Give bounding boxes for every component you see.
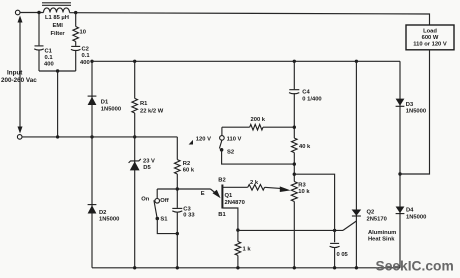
node: left end of mid rail [90,60,93,63]
node: R3 at bottom rail [293,266,296,269]
svg-text:2N5170: 2N5170 [367,216,387,222]
wire: filter center drop [57,71,59,137]
potentiometer R3 [291,182,297,202]
node: filter bottom junction [56,69,59,72]
svg-text:23 V: 23 V [143,159,155,165]
wire: Q2 branch [355,61,357,267]
diode D4 [396,207,405,214]
node B1 junction [236,228,239,231]
resistor 2k [248,185,265,191]
node E junction [176,187,179,190]
wire: filter bottom [39,70,76,72]
input terminal bottom [17,135,22,140]
wire: R2 branch corner [176,137,178,160]
svg-text:0 1/400: 0 1/400 [302,97,321,103]
wire: B2 lead to 2k [222,186,247,188]
svg-text:110 V: 110 V [227,137,242,143]
thyristor Q2 2N5170 [352,210,362,217]
svg-text:Aluminum: Aluminum [368,230,396,236]
wire: S2 top to 200k [222,126,250,128]
svg-text:0.1: 0.1 [45,55,54,61]
wire: 0.05 branch horizontal [294,174,334,242]
switch S1 [154,189,177,234]
svg-text:D4: D4 [406,208,414,214]
svg-text:Input: Input [7,70,23,77]
inductor L1 coil [44,8,70,13]
transistor Q1 (UJT 2N4870) [221,185,223,209]
wire: R1/zener branch [134,61,136,98]
svg-text:S1: S1 [160,217,168,223]
wire: mid rail [92,60,400,62]
resistor 1k [237,230,239,241]
node: zener at bottom rail [133,266,136,269]
svg-text:Q1: Q1 [225,193,234,199]
svg-text:R2: R2 [183,161,190,167]
svg-text:On: On [141,197,150,203]
svg-text:Filter: Filter [51,31,66,37]
svg-text:D3: D3 [406,102,414,108]
capacitor 0.05 [330,243,340,247]
node: C3 bottom junction [176,232,179,235]
svg-text:200-260 Vac: 200-260 Vac [1,77,37,84]
svg-text:400: 400 [80,60,90,66]
diode D2 [88,205,97,214]
resistor R1 [132,98,138,113]
node: 0.05 cap at gate line [333,229,336,232]
node: 200k junction [293,126,296,129]
svg-text:L1 85 µH: L1 85 µH [45,15,69,21]
svg-text:E: E [201,191,205,197]
input terminal top [15,10,20,15]
node: R3 top junction [293,173,296,176]
svg-text:10: 10 [80,30,86,36]
svg-text:S2: S2 [227,150,234,156]
node: C4 top [293,60,296,63]
wire: B1 lead [222,208,238,230]
node: 1k at bottom rail [236,266,239,269]
node: C3 at bottom rail [176,266,179,269]
resistor 200k [250,124,263,130]
wire: load bottom drop [400,50,430,174]
node: center drop junction [56,135,59,138]
svg-text:400: 400 [44,61,54,67]
svg-text:R3: R3 [298,182,306,188]
resistor 10 [73,27,79,42]
wire: filter left branch lower [38,49,40,71]
wire: filter right branch upper [75,13,77,27]
svg-text:1N5000: 1N5000 [406,214,426,220]
svg-text:C3: C3 [183,206,191,212]
resistor 40k [292,138,298,153]
switch S2 [219,127,294,164]
svg-text:C1: C1 [45,49,53,55]
capacitor C3 [172,208,182,212]
wire: bottom rail [92,267,400,269]
wire: filter right branch lower [75,50,77,71]
svg-text:D5: D5 [143,165,151,171]
node: Q2 top [355,60,358,63]
diode D1 [88,96,97,105]
svg-text:R1: R1 [140,101,148,107]
svg-text:0 05: 0 05 [337,252,349,258]
svg-text:2N4870: 2N4870 [225,200,245,206]
svg-text:0 33: 0 33 [183,212,195,218]
svg-text:2 k: 2 k [250,180,259,186]
svg-text:10 k: 10 k [298,189,310,195]
svg-text:Load: Load [423,29,437,35]
svg-text:C4: C4 [302,89,310,95]
node: S2 return junction [293,162,296,165]
svg-text:40 k: 40 k [299,144,311,150]
svg-text:SeekIC.com: SeekIC.com [376,259,454,274]
svg-text:C2: C2 [82,46,89,52]
svg-text:200 k: 200 k [251,117,266,123]
node: 0.05 at bottom rail [333,266,336,269]
wire: C4 branch [293,61,295,89]
wire: 2k to R3 wiper arrow [265,187,282,188]
load box [406,25,454,50]
svg-text:B1: B1 [218,212,226,218]
wire: D3/D4 branch [399,61,401,267]
svg-text:D1: D1 [101,100,109,106]
wire: filter left branch [38,13,40,46]
node: top-right of filter [74,11,77,14]
wire: gate line to Q2 [238,229,343,231]
wire: left diode branch [91,61,93,267]
node: load/D3 junction [398,172,401,175]
node: R1 branch at input rail [133,135,136,138]
node: Q2 at bottom rail [355,266,358,269]
svg-text:1N5000: 1N5000 [406,109,426,115]
svg-text:1N5000: 1N5000 [99,216,119,222]
svg-text:0.1: 0.1 [82,53,91,59]
svg-text:120 V: 120 V [196,137,211,143]
svg-text:Off: Off [160,198,168,204]
capacitor C1 [34,46,44,50]
capacitor C2 [71,46,81,50]
node: top-left junction [37,11,40,14]
svg-text:110 or 120 V: 110 or 120 V [413,42,447,48]
svg-text:Q2: Q2 [367,210,375,216]
svg-text:22 k/2 W: 22 k/2 W [140,108,164,114]
diode D3 [396,99,405,107]
svg-text:1 k: 1 k [243,246,252,252]
node: R1 top [133,60,136,63]
wire: input bottom rail [22,136,177,138]
svg-text:B2: B2 [218,178,225,184]
capacitor C4 [289,90,299,94]
svg-text:60 k: 60 k [183,168,195,174]
svg-text:EMI: EMI [53,23,64,29]
svg-text:1N5000: 1N5000 [101,106,121,112]
zener D5 [129,159,141,171]
inductor core lines [42,2,71,4]
resistor R2 [175,160,181,174]
node: D branch at input rail [90,135,93,138]
svg-text:600 W: 600 W [422,35,439,41]
input arrow (double-headed) [18,16,23,134]
wire: E emitter lead [177,188,210,190]
svg-text:Heat Sink: Heat Sink [368,236,395,242]
wire: top rail [20,12,44,14]
svg-text:D2: D2 [99,210,106,216]
